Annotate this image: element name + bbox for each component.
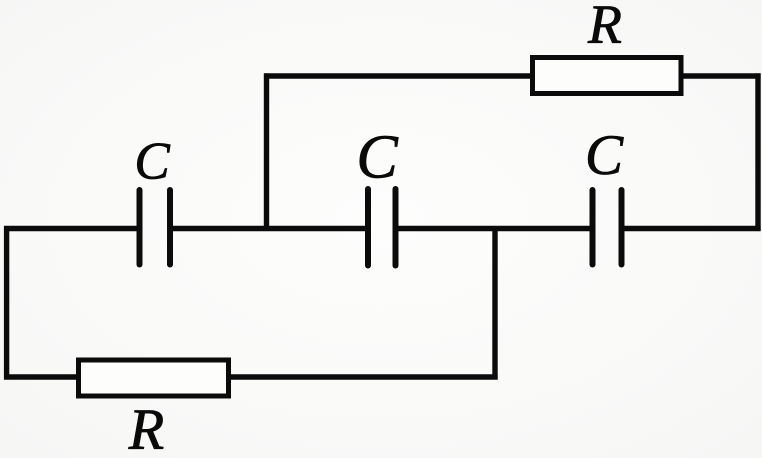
resistor R1 [533, 58, 682, 94]
wire middle rail segment 4 (C3 to right rail) [621, 226, 761, 231]
wire top-left horizontal (node between V1 and R1) [264, 73, 533, 78]
svg-text:R: R [128, 397, 164, 458]
capacitor C3 [593, 190, 622, 265]
wire bottom-right horizontal (R2 to V4) [229, 374, 498, 379]
wire top-right horizontal (R1 to right rail) [681, 73, 761, 78]
wire middle rail segment 1 (left edge to C1) [4, 226, 140, 231]
capacitor C1 [140, 190, 171, 265]
wire right rail vertical [755, 73, 760, 231]
wire bottom-left horizontal (left rail to R2) [4, 374, 79, 379]
resistor R2 [79, 360, 229, 396]
wire left rail vertical [4, 226, 9, 380]
svg-text:C: C [585, 124, 624, 187]
wire vertical middle branch (V4) [492, 226, 497, 380]
svg-text:C: C [356, 124, 398, 192]
capacitor C2 [368, 189, 396, 266]
wire middle rail segment 3 (C2 to C3) [396, 226, 593, 231]
svg-text:R: R [587, 0, 622, 56]
wire middle rail segment 2 (C1 to C2) [170, 226, 368, 231]
svg-text:C: C [134, 133, 170, 191]
wire vertical left branch (V1) [264, 73, 269, 231]
